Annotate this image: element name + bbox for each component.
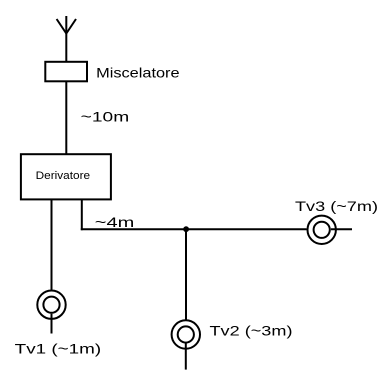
wire tap down right: [81, 199, 83, 230]
svg-text:Derivatore: Derivatore: [36, 170, 91, 182]
svg-text:~4m: ~4m: [95, 214, 135, 230]
svg-text:Miscelatore: Miscelatore: [96, 64, 180, 80]
wire tap to Tv1: [51, 199, 53, 289]
outlet Tv3: [308, 216, 353, 244]
junction node: [183, 226, 189, 232]
wire horizontal run: [81, 228, 307, 230]
outlet Tv1: [37, 291, 65, 334]
svg-text:Tv2 (~3m): Tv2 (~3m): [210, 322, 293, 338]
svg-text:Tv3 (~7m): Tv3 (~7m): [295, 198, 378, 214]
tap box Derivatore: [21, 154, 111, 199]
svg-text:~10m: ~10m: [81, 108, 130, 124]
wire mixer to tap: [65, 81, 67, 154]
mixer box Miscelatore: [45, 62, 87, 82]
antenna ANT1: [57, 16, 76, 62]
svg-text:Tv1 (~1m): Tv1 (~1m): [15, 341, 102, 357]
outlet Tv2: [172, 320, 200, 369]
wire junction to Tv2: [185, 229, 187, 320]
